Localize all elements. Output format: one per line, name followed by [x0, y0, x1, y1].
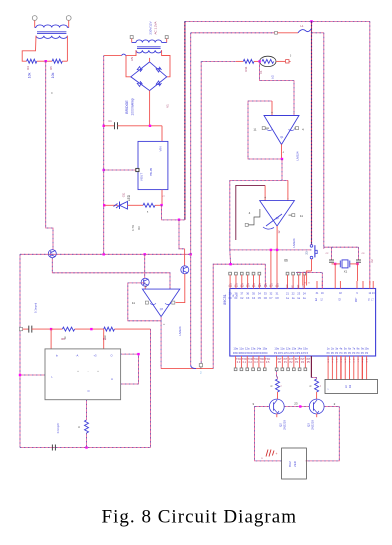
svg-text:23: 23 — [305, 251, 309, 255]
svg-text:4.7K: 4.7K — [131, 225, 135, 231]
svg-text:P3.5: P3.5 — [303, 351, 309, 355]
svg-text:+: + — [264, 196, 266, 200]
svg-text:RXD: RXD — [250, 351, 256, 355]
svg-text:89C51: 89C51 — [223, 294, 227, 305]
svg-text:14a: 14a — [257, 347, 262, 351]
svg-text:R5: R5 — [49, 66, 53, 70]
svg-text:78L05: 78L05 — [149, 167, 153, 176]
svg-text:11: 11 — [253, 128, 256, 132]
svg-text:0.3: 0.3 — [254, 361, 258, 364]
svg-text:-4(: -4( — [229, 284, 232, 286]
svg-text:-: - — [287, 196, 288, 200]
svg-text:10k: 10k — [51, 72, 55, 78]
svg-text:BRIDGE: BRIDGE — [125, 100, 129, 114]
svg-text:11: 11 — [300, 214, 303, 218]
svg-text:R8: R8 — [61, 337, 65, 341]
svg-text:10a: 10a — [274, 347, 279, 351]
svg-text:10a: 10a — [233, 347, 238, 351]
svg-text:O: O — [87, 389, 89, 393]
svg-text:0.2: 0.2 — [248, 361, 252, 364]
svg-text:LM324: LM324 — [296, 151, 300, 161]
svg-text:12a: 12a — [245, 347, 250, 351]
svg-text:VIN: VIN — [159, 146, 163, 151]
svg-text:-4(: -4( — [247, 284, 250, 286]
svg-text:+: + — [145, 285, 147, 289]
svg-text:-: - — [169, 285, 170, 289]
svg-text:RXD: RXD — [233, 351, 239, 355]
svg-text:12a: 12a — [286, 347, 291, 351]
svg-text:O: O — [110, 354, 112, 358]
svg-text:-4(: -4( — [276, 284, 279, 286]
svg-text:R9: R9 — [103, 337, 107, 341]
svg-text:0.1mprF: 0.1mprF — [56, 423, 60, 434]
svg-text:LG: LG — [271, 75, 275, 79]
svg-text:R4: R4 — [26, 66, 30, 70]
svg-text:LM324: LM324 — [292, 238, 296, 248]
svg-text:2N2219: 2N2219 — [283, 420, 287, 430]
svg-text:-4(: -4( — [270, 284, 273, 286]
svg-text:13a: 13a — [251, 347, 256, 351]
svg-text:EA: EA — [315, 298, 318, 302]
svg-text:X1: X1 — [344, 270, 348, 274]
svg-text:-: - — [293, 111, 294, 115]
svg-text:R11: R11 — [244, 66, 248, 71]
svg-text:LC: LC — [344, 385, 348, 388]
svg-text:11a: 11a — [280, 347, 285, 351]
svg-text:-4(: -4( — [235, 284, 238, 286]
svg-text:15a: 15a — [263, 347, 268, 351]
svg-text:-: - — [88, 370, 89, 373]
svg-text:LM324: LM324 — [178, 326, 182, 336]
svg-text:+: + — [163, 322, 165, 326]
svg-text:15a: 15a — [303, 347, 308, 351]
svg-text:2N2219: 2N2219 — [311, 420, 315, 430]
svg-text:230V/12V: 230V/12V — [149, 21, 153, 34]
svg-text:R: R — [270, 385, 274, 387]
svg-text:RXD: RXD — [256, 351, 262, 355]
svg-text:R6: R6 — [137, 226, 141, 230]
svg-text:-4(: -4( — [241, 284, 244, 286]
svg-text:10a: 10a — [365, 348, 370, 351]
svg-text:C1: C1 — [108, 119, 112, 123]
svg-text:V1: V1 — [166, 104, 170, 108]
svg-text:R: R — [309, 385, 313, 387]
svg-text:0.4: 0.4 — [260, 361, 264, 364]
svg-text:G31: G31 — [123, 192, 126, 197]
svg-text:LED: LED — [127, 194, 131, 201]
svg-text:10k: 10k — [28, 72, 32, 78]
svg-text:+: + — [276, 452, 278, 456]
svg-text:+: + — [271, 111, 273, 115]
svg-text:VOUT: VOUT — [140, 173, 144, 182]
svg-text:+: + — [282, 151, 286, 153]
svg-text:0.5: 0.5 — [266, 361, 270, 364]
svg-text:RXD: RXD — [262, 351, 268, 355]
svg-text:2R0: 2R0 — [286, 284, 289, 289]
svg-text:12V: 12V — [131, 56, 134, 61]
svg-text:-4(: -4( — [252, 284, 255, 286]
svg-text:-A: -A — [76, 354, 79, 358]
svg-text:BUZ: BUZ — [288, 461, 292, 467]
svg-text:11: 11 — [132, 301, 135, 305]
svg-text:D2: D2 — [348, 384, 352, 388]
svg-text:13a: 13a — [292, 347, 297, 351]
svg-text:-4(: -4( — [258, 284, 261, 286]
svg-text:ZER: ZER — [293, 461, 297, 467]
svg-text:RXD: RXD — [245, 351, 251, 355]
svg-text:C2: C2 — [370, 259, 374, 263]
svg-text:23: 23 — [294, 401, 298, 405]
svg-text:2R1: 2R1 — [291, 284, 294, 289]
svg-text:2R2: 2R2 — [297, 284, 300, 289]
svg-text:0.1mprd: 0.1mprd — [34, 302, 38, 313]
svg-text:1000mAmp: 1000mAmp — [131, 98, 135, 115]
svg-text:14a: 14a — [297, 347, 302, 351]
svg-text:A: A — [111, 377, 113, 381]
svg-text:RST: RST — [356, 297, 358, 302]
svg-text:RXD: RXD — [239, 351, 245, 355]
svg-text:R: R — [77, 426, 81, 428]
svg-text:I-: I- — [51, 375, 53, 379]
svg-text:Fig. 8 Circuit Diagram: Fig. 8 Circuit Diagram — [102, 506, 298, 527]
svg-text:66: 66 — [284, 259, 288, 263]
svg-text:-4(: -4( — [264, 284, 267, 286]
svg-text:AC 1.2VA: AC 1.2VA — [154, 22, 158, 35]
svg-text:0.1: 0.1 — [243, 361, 247, 364]
svg-text:11a: 11a — [239, 347, 244, 351]
svg-text:0.0: 0.0 — [237, 361, 241, 364]
